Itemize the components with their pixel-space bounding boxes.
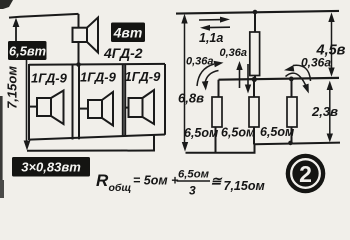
resistor R1 (5 ом, series) <box>250 12 260 80</box>
current arrow right (1,1а out) <box>199 17 230 23</box>
svg-text:6,5ом: 6,5ом <box>221 126 255 140</box>
svg-text:7,15ом: 7,15ом <box>224 179 265 193</box>
svg-text:общ: общ <box>109 182 132 194</box>
svg-text:6,5ом: 6,5ом <box>178 169 210 181</box>
scan smudge top-left corner <box>0 0 13 9</box>
svg-text:1,1а: 1,1а <box>199 31 223 45</box>
power label box 3×0,83вт <box>12 157 90 177</box>
wire: input top rail (left circuit) <box>9 14 79 18</box>
formula R общ = 5ом + 6,5ом/3 ≅ 7,15ом <box>96 169 265 198</box>
svg-text:R: R <box>96 171 109 190</box>
wire: bottom return <box>27 150 154 152</box>
wire: parallel section bottom rail <box>29 135 165 140</box>
svg-text:6,5ом: 6,5ом <box>184 126 218 140</box>
wire: top rail <box>176 11 339 14</box>
svg-text:3: 3 <box>189 184 196 198</box>
svg-text:4вm: 4вm <box>113 25 143 41</box>
wire: bottom rail with jog <box>186 143 341 153</box>
wire: drop to speaker B1 <box>78 14 80 28</box>
arrow from power label to input wire <box>13 18 20 42</box>
figure number badge 2 <box>286 154 326 194</box>
wire: return drop <box>153 135 155 152</box>
dimension line 6,8в <box>181 14 188 152</box>
wire: cell 3 right conductor <box>164 64 166 135</box>
scan smudge left edge <box>0 96 3 198</box>
svg-text:6,5ом: 6,5ом <box>260 125 294 139</box>
svg-text:7,15ом: 7,15ом <box>5 66 20 109</box>
wire: middle rail <box>219 78 340 80</box>
dimension line 7,15ом with down arrow <box>24 60 31 151</box>
resistor R4 (6,5 ом) <box>287 79 297 143</box>
svg-text:2: 2 <box>299 161 312 187</box>
junction dot <box>76 62 81 67</box>
svg-text:1ГД-9: 1ГД-9 <box>80 70 117 85</box>
svg-text:6,8в: 6,8в <box>178 91 204 106</box>
curved current arrow (left outer, up-right head) <box>197 61 224 86</box>
resistor R2 (6,5 ом) <box>212 80 222 153</box>
curved current arrow (left inner, down head) <box>202 71 219 91</box>
junction dot middle rail (R4 top) <box>289 77 294 82</box>
svg-text:0,36а: 0,36а <box>220 47 248 59</box>
svg-text:3×0,83вm: 3×0,83вm <box>21 160 81 175</box>
wire from B1 down to parallel rail <box>78 42 80 65</box>
svg-text:1ГД-9: 1ГД-9 <box>125 69 162 84</box>
wire: parallel section top rail <box>29 63 165 66</box>
resistor R3 (6,5 ом) <box>249 80 259 145</box>
power label box 6,5вт <box>8 41 47 60</box>
dimension line 2,3в <box>327 81 333 143</box>
svg-text:4ГД-2: 4ГД-2 <box>103 45 143 61</box>
svg-text:1ГД-9: 1ГД-9 <box>31 71 68 86</box>
power label box 4вт <box>111 23 145 43</box>
wire: cell 2 left conductor <box>78 65 80 140</box>
down arrow (middle branch current) <box>245 64 251 94</box>
wire: cell 1 right conductor <box>72 65 74 140</box>
wire: cell 3 left conductor <box>124 64 126 136</box>
junction dot middle rail (R3 top) <box>252 77 257 82</box>
loudspeaker B1 4ГД-2 <box>73 18 99 53</box>
svg-text:4,5в: 4,5в <box>316 43 346 59</box>
junction dot bottom rail <box>288 141 293 146</box>
current arrow left (return) <box>200 25 230 31</box>
svg-text:2,3в: 2,3в <box>311 104 338 119</box>
dimension line 4,5в <box>328 12 334 76</box>
wire: cell 1 left conductor <box>28 64 30 140</box>
svg-text:≅: ≅ <box>211 174 223 189</box>
curved current arrow (right outer, left head) <box>284 65 311 81</box>
loudspeaker B4 1ГД-9 <box>125 90 154 124</box>
loudspeaker B2 1ГД-9 <box>29 91 64 125</box>
curved current arrow (right inner, down head) <box>286 73 309 93</box>
loudspeaker B3 1ГД-9 <box>79 92 113 126</box>
svg-text:= 5ом +: = 5ом + <box>133 174 179 188</box>
junction dot on top rail <box>253 10 258 15</box>
svg-text:6,5вm: 6,5вm <box>9 44 46 59</box>
wire: cell 2 right conductor <box>122 64 124 136</box>
up arrow (middle branch current) <box>236 61 242 88</box>
